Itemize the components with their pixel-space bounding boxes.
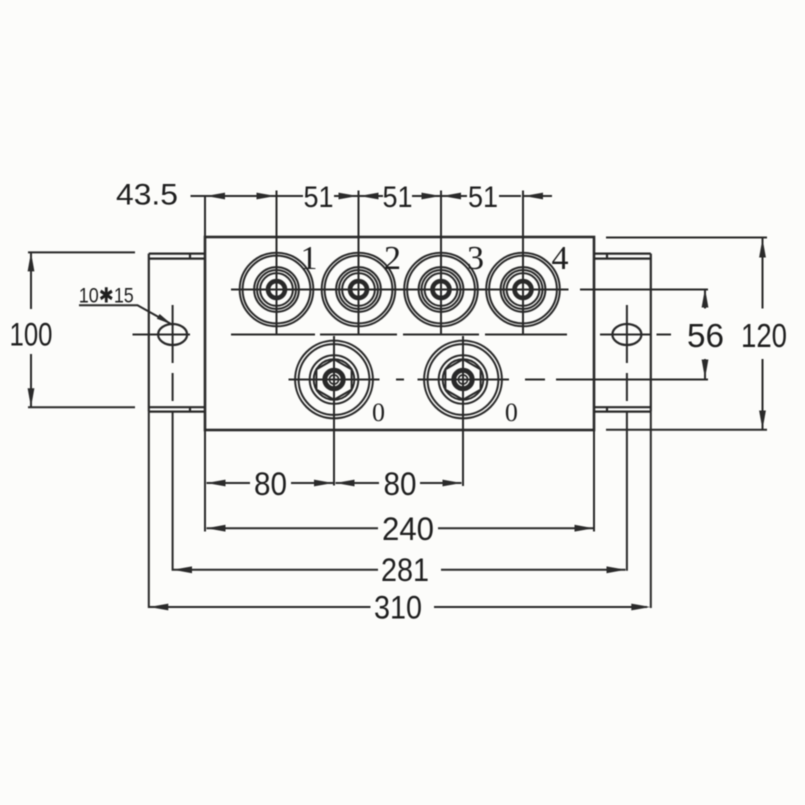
arrow 240 left bbox=[207, 525, 226, 532]
left flange bbox=[149, 254, 205, 412]
arrow 51b left bbox=[360, 193, 379, 200]
svg-text:51: 51 bbox=[383, 181, 413, 214]
left slot centerlines bbox=[133, 305, 191, 401]
arrow 56 down bbox=[702, 360, 709, 379]
arrow 281 right bbox=[607, 566, 626, 573]
dim 240 line bbox=[207, 527, 594, 529]
arrow 80b left bbox=[336, 480, 355, 487]
svg-text:10✱15: 10✱15 bbox=[79, 285, 134, 308]
terminal 2 bbox=[313, 191, 404, 334]
terminal 0 left bbox=[289, 336, 405, 486]
leader 10x15 bbox=[79, 305, 172, 324]
svg-text:56: 56 bbox=[687, 317, 724, 354]
terminal 3 bbox=[396, 191, 487, 334]
arrow 43.5 right bbox=[257, 193, 276, 200]
svg-text:1: 1 bbox=[301, 240, 318, 277]
left slot 10x15 bbox=[158, 324, 187, 345]
svg-text:100: 100 bbox=[10, 317, 53, 353]
svg-text:2: 2 bbox=[384, 240, 401, 277]
dim 51 b line bbox=[360, 195, 441, 197]
arrow 80a right bbox=[314, 480, 333, 487]
svg-text:80: 80 bbox=[254, 466, 287, 502]
right flange bbox=[594, 254, 651, 412]
svg-text:0: 0 bbox=[505, 398, 518, 427]
terminal number labels bbox=[301, 240, 569, 427]
arrow 56 up bbox=[702, 289, 709, 308]
dim 281 line bbox=[173, 412, 627, 571]
arrow 80a left bbox=[207, 480, 226, 487]
right slot centerlines bbox=[600, 305, 671, 401]
terminal 0 right bbox=[418, 336, 510, 486]
dimension texts bbox=[10, 179, 788, 626]
arrow 120 down bbox=[759, 411, 766, 430]
terminal 4 bbox=[478, 191, 569, 334]
svg-text:51: 51 bbox=[468, 181, 498, 214]
svg-text:0: 0 bbox=[372, 398, 385, 427]
arrowheads bbox=[28, 193, 766, 611]
arrow 80b right bbox=[443, 480, 462, 487]
arrow 51a right bbox=[339, 193, 358, 200]
dim 51 a line bbox=[277, 195, 358, 197]
dim 56 line bbox=[525, 289, 708, 380]
arrow 51c left bbox=[442, 193, 461, 200]
dim 80 lines bbox=[205, 430, 594, 532]
arrow 120 up bbox=[759, 239, 766, 258]
arrow 310 right bbox=[631, 604, 650, 611]
arrow 100 up bbox=[28, 252, 35, 271]
svg-text:51: 51 bbox=[304, 181, 334, 214]
svg-text:3: 3 bbox=[467, 240, 484, 277]
dim right outside tail bbox=[524, 195, 552, 197]
svg-text:4: 4 bbox=[552, 240, 569, 277]
arrow outside at terminal4 line bbox=[524, 193, 543, 200]
arrow 281 left bbox=[173, 566, 192, 573]
arrow leader 10x15 bbox=[157, 314, 172, 325]
mid horizontal centerline bbox=[231, 334, 567, 336]
dim 310 line bbox=[149, 412, 651, 608]
svg-text:80: 80 bbox=[384, 466, 417, 502]
top dimension line 43.5 bbox=[191, 195, 277, 197]
svg-text:310: 310 bbox=[374, 590, 422, 626]
dim 100 line bbox=[28, 252, 135, 407]
arrow 310 left bbox=[149, 604, 168, 611]
arrow 43.5 left bbox=[206, 193, 225, 200]
right slot 10x15 bbox=[612, 324, 641, 345]
dim 51 c line bbox=[442, 195, 521, 197]
top dimension extension lines bbox=[204, 196, 206, 237]
svg-text:281: 281 bbox=[381, 552, 429, 588]
dim 120 line bbox=[606, 238, 767, 430]
svg-text:43.5: 43.5 bbox=[116, 179, 178, 212]
arrow 51b right bbox=[422, 193, 441, 200]
svg-text:120: 120 bbox=[741, 317, 787, 354]
body outline bbox=[205, 237, 594, 430]
terminal 1 bbox=[231, 191, 322, 334]
arrow 100 down bbox=[28, 388, 35, 407]
svg-text:240: 240 bbox=[382, 511, 434, 547]
arrow 240 right bbox=[575, 525, 594, 532]
